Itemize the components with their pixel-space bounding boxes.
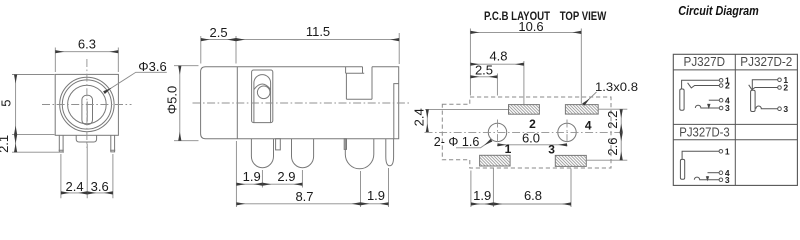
hole 1 xyxy=(488,123,506,141)
cell3 wire 4 xyxy=(707,176,709,179)
svg-text:11.5: 11.5 xyxy=(306,24,330,39)
dim PHI5.0 xyxy=(179,66,181,141)
pcb bottom dims ext lines xyxy=(471,168,571,207)
svg-text:TOP VIEW: TOP VIEW xyxy=(560,9,607,23)
cell3 terminal 3 xyxy=(719,178,723,182)
dashed body outline xyxy=(442,97,611,168)
dim 1.9 (pin1) xyxy=(236,183,262,185)
svg-text:6.0: 6.0 xyxy=(522,131,540,146)
svg-text:8.7: 8.7 xyxy=(295,189,313,204)
svg-text:2: 2 xyxy=(529,117,536,131)
dim 2.5 xyxy=(201,39,236,41)
dim PHI5.0 extension lines xyxy=(174,66,199,141)
barrel/body divider xyxy=(236,67,238,139)
svg-text:PJ327D-3: PJ327D-3 xyxy=(679,125,730,139)
cell3 sleeve bar xyxy=(680,159,684,179)
pin 4 (side) xyxy=(386,139,394,166)
svg-text:Φ5.0: Φ5.0 xyxy=(165,86,180,114)
svg-text:6.3: 6.3 xyxy=(78,37,96,52)
dim 2.5 ext line xyxy=(496,74,498,96)
svg-text:3: 3 xyxy=(725,103,730,113)
svg-text:PJ327D: PJ327D xyxy=(684,55,726,69)
cell1 sleeve bar xyxy=(680,89,684,110)
svg-text:10.6: 10.6 xyxy=(518,19,543,34)
cell1 wire 3 xyxy=(695,105,719,108)
dim 5 xyxy=(15,75,17,135)
dim 10.6 xyxy=(470,31,581,33)
svg-text:1.3x0.8: 1.3x0.8 xyxy=(595,80,638,94)
dims 2.2 / 2.6 ext lines xyxy=(586,109,627,160)
cell1 terminal 4 xyxy=(719,98,723,102)
center slot xyxy=(82,95,93,124)
svg-text:PJ327D-2: PJ327D-2 xyxy=(740,55,792,69)
top-right notch xyxy=(346,67,372,99)
dim 2.4 ext line xyxy=(425,108,508,110)
hole 2 xyxy=(558,123,576,141)
right pin (front) xyxy=(111,135,115,152)
svg-text:2- Φ 1.6: 2- Φ 1.6 xyxy=(434,134,480,149)
dim 2.4 (pcb) xyxy=(426,109,428,132)
table row lines xyxy=(673,70,797,140)
dim 2.4 xyxy=(61,192,87,194)
svg-text:2.4: 2.4 xyxy=(66,179,84,194)
svg-text:2: 2 xyxy=(783,83,788,93)
dim 1.9 (pin4) xyxy=(361,203,389,205)
pad 4 xyxy=(565,105,598,115)
dim 2.2 xyxy=(620,109,622,132)
cell1 terminal 3 xyxy=(719,106,723,110)
small tab A xyxy=(276,139,281,150)
pad 2 xyxy=(509,105,540,115)
svg-text:2: 2 xyxy=(725,81,730,91)
table column divider xyxy=(734,54,736,185)
bottom dims extension lines xyxy=(236,141,388,207)
dim 6.0 xyxy=(498,144,568,146)
dim 5 / 2.1 extension lines xyxy=(12,75,64,153)
centerline horizontal xyxy=(42,104,132,106)
svg-text:1: 1 xyxy=(505,142,512,156)
dim 8.7 xyxy=(236,203,360,205)
cell2 wire 3 xyxy=(756,106,778,109)
svg-text:1: 1 xyxy=(725,147,730,157)
svg-text:3: 3 xyxy=(548,143,555,157)
cell2 wire 2 xyxy=(749,85,778,90)
svg-text:Φ3.6: Φ3.6 xyxy=(138,59,166,74)
hole circle xyxy=(68,85,107,124)
dim 2.6 xyxy=(620,132,622,160)
dim 6.8 xyxy=(493,203,571,205)
hole centerlines vertical xyxy=(498,120,568,148)
svg-text:Circuit Diagram: Circuit Diagram xyxy=(678,3,759,18)
cell3 terminal 4 xyxy=(719,171,723,175)
cell2 terminal 1 xyxy=(778,78,782,82)
dim 2.4 / 3.6 extension lines xyxy=(61,144,113,198)
dim 1.9 (pcb) xyxy=(471,203,494,205)
cell1 wire 4 xyxy=(708,104,710,108)
bottom tab (front) xyxy=(76,135,96,142)
cell3 wire 3 xyxy=(694,177,719,180)
svg-text:1.9: 1.9 xyxy=(367,188,385,203)
cell2 terminal 2 xyxy=(778,86,782,90)
svg-text:2.2: 2.2 xyxy=(605,111,620,129)
svg-text:4: 4 xyxy=(585,118,592,132)
pin 2 (side) xyxy=(292,139,314,168)
body square xyxy=(55,74,118,135)
side body outline xyxy=(201,67,399,139)
cell2 sleeve bar xyxy=(751,90,756,111)
svg-text:2.6: 2.6 xyxy=(605,138,620,156)
slot dome arc xyxy=(254,84,271,90)
pcb centerline xyxy=(425,131,624,133)
dim 6.3 extension lines xyxy=(55,48,118,73)
svg-text:2.4: 2.4 xyxy=(411,108,426,126)
pin 3 (side) xyxy=(345,139,374,169)
svg-text:2.9: 2.9 xyxy=(277,169,295,184)
pad 3 xyxy=(555,155,586,166)
cell2 wire 1 xyxy=(752,80,777,91)
dim 2.1 xyxy=(15,135,17,153)
dim 2.5 (pcb) xyxy=(470,76,497,78)
cell2 terminal 3 xyxy=(778,107,782,111)
svg-text:3: 3 xyxy=(783,104,788,114)
center pin line xyxy=(86,102,88,122)
svg-text:3.6: 3.6 xyxy=(91,179,109,194)
slot circle xyxy=(257,86,270,99)
dim 2.9 xyxy=(262,183,302,185)
svg-text:2.5: 2.5 xyxy=(475,63,493,78)
svg-text:1.9: 1.9 xyxy=(243,169,261,184)
bezel circle outer xyxy=(60,77,114,131)
slot inner xyxy=(254,75,271,123)
cell3 wire 1 xyxy=(682,151,719,159)
svg-text:4.8: 4.8 xyxy=(489,48,507,63)
svg-text:2.5: 2.5 xyxy=(210,25,228,40)
barrel circle xyxy=(62,80,111,129)
cell3 terminal 1 xyxy=(719,150,723,154)
svg-text:3: 3 xyxy=(725,175,730,185)
pad 1 xyxy=(480,155,511,166)
cell1 wire 2 xyxy=(688,83,720,88)
dim 4.8 xyxy=(470,63,524,65)
dim 11.5 xyxy=(236,39,399,41)
svg-text:1.9: 1.9 xyxy=(473,188,491,203)
centerline vertical xyxy=(86,59,88,148)
dim 3.6 xyxy=(87,192,113,194)
left pin (front) xyxy=(59,135,63,152)
small tab B xyxy=(344,139,346,150)
svg-text:2.1: 2.1 xyxy=(0,135,11,153)
pin 1 (side) xyxy=(251,139,273,168)
cell1 terminal 2 xyxy=(719,84,723,88)
dim 6.3 xyxy=(55,51,118,53)
dim 2.5 / 11.5 extension lines xyxy=(201,33,399,64)
cell1 wire 1 xyxy=(682,80,720,89)
svg-text:6.8: 6.8 xyxy=(524,188,542,203)
dim 4.8 ext line xyxy=(523,61,525,104)
dim 10.6 ext lines xyxy=(470,29,581,104)
svg-text:5: 5 xyxy=(0,100,13,107)
table frame xyxy=(673,54,797,185)
side centerline xyxy=(193,102,410,104)
cell1 terminal 1 xyxy=(719,79,723,83)
slot outer xyxy=(252,70,273,123)
right inner step xyxy=(394,84,399,139)
